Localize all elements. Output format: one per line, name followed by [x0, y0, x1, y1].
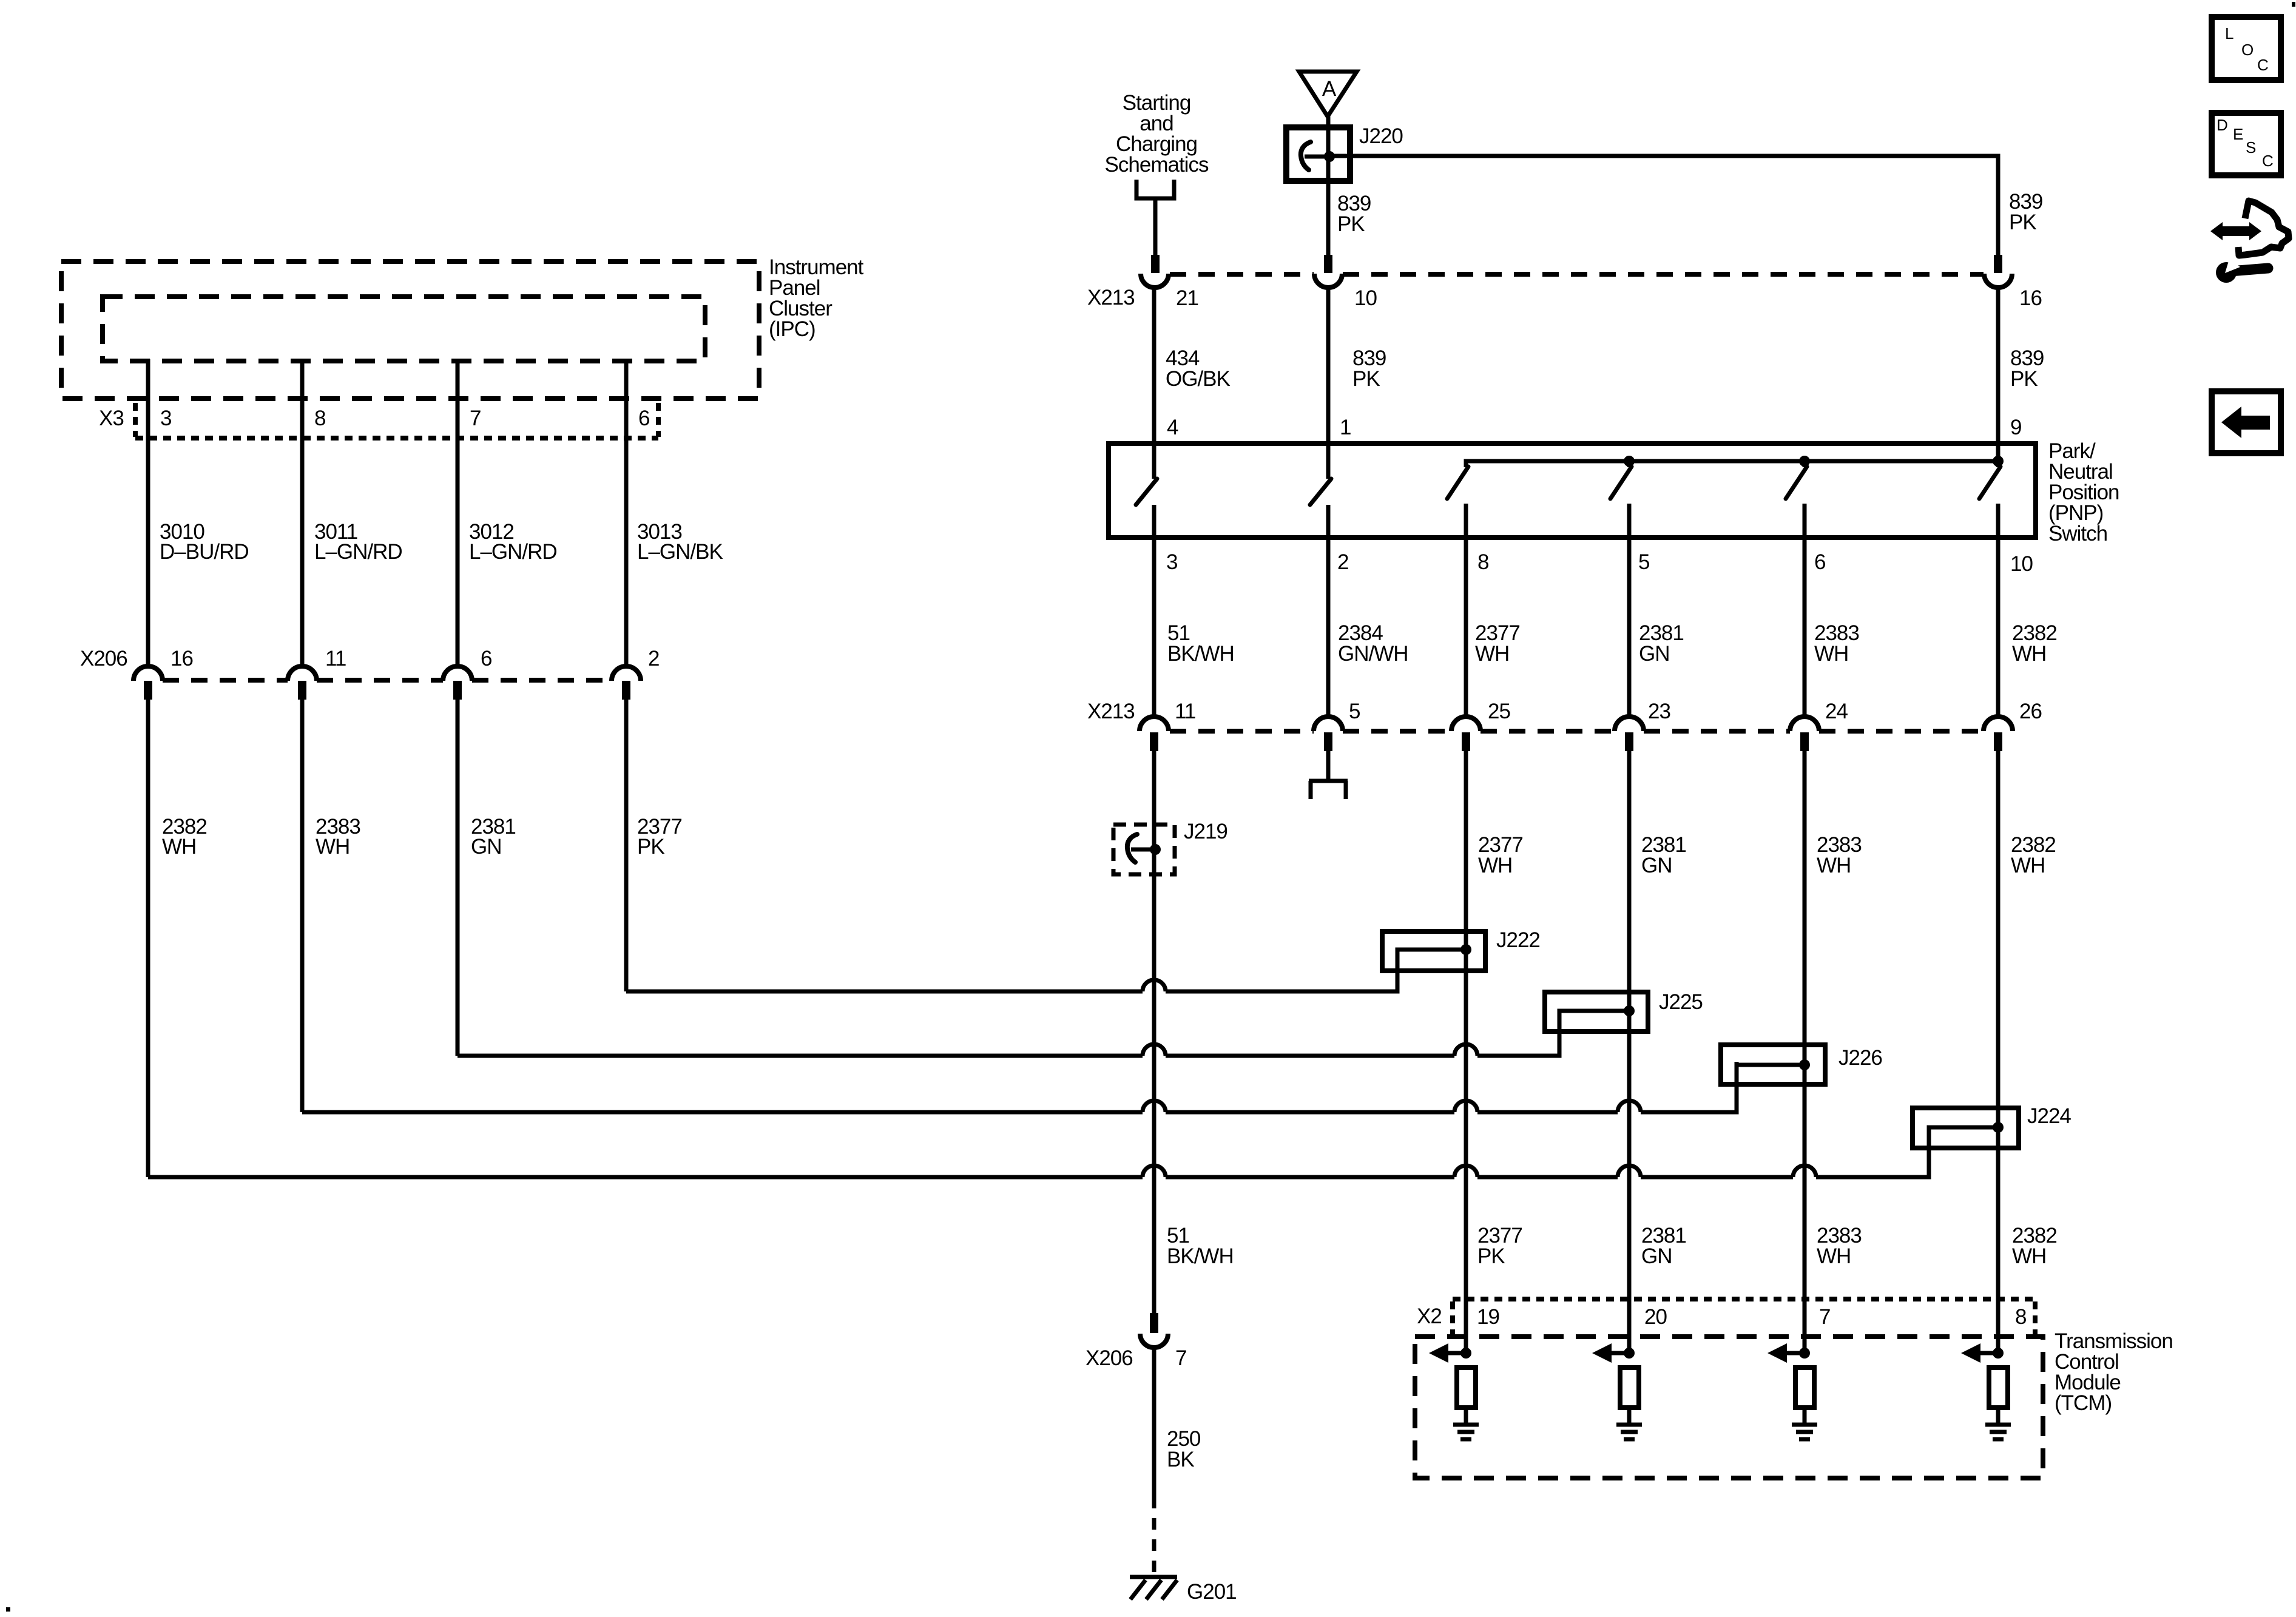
connector X2 right tick	[2033, 1301, 2038, 1334]
svg-text:O: O	[2241, 41, 2254, 59]
wire label 2384 GN/WH	[1338, 621, 1408, 666]
DESC icon box	[2212, 113, 2281, 175]
wire label 2381 GN lower	[1641, 1224, 1686, 1268]
switch 1 lower contact wire to pin 3	[1152, 505, 1156, 717]
TCM junction pin 7	[1799, 1348, 1810, 1359]
svg-text:E: E	[2233, 125, 2243, 143]
label Transmission Control Module (TCM)	[2055, 1329, 2173, 1415]
wire 2382 WH from X213-26 down to TCM pin 8	[1996, 751, 2001, 1353]
wire 2383 WH down from X206-11 to bus3 elbow	[300, 700, 305, 1112]
splice J224 junction	[1993, 1122, 2004, 1133]
label Park/Neutral Position (PNP) Switch	[2048, 439, 2119, 545]
service icon wrench	[2216, 259, 2268, 283]
wire label 2383 WH lower	[1817, 1224, 1862, 1268]
node A triangle	[1299, 72, 1357, 116]
svg-text:X2: X2	[1417, 1305, 1442, 1328]
label Instrument Panel Cluster (IPC)	[769, 255, 864, 341]
svg-text:X213: X213	[1087, 286, 1135, 309]
wire 2384 stub below X213-5	[1326, 751, 1331, 781]
svg-text:L: L	[2225, 24, 2234, 42]
wire label 2381 GN mid	[1641, 833, 1686, 877]
bus3 segment	[1477, 1110, 1618, 1115]
splice J222 junction	[1460, 944, 1471, 955]
bus2 hop over wire 51	[1143, 1044, 1166, 1056]
svg-text:2: 2	[1337, 550, 1348, 574]
splice J219 dashed box	[1113, 825, 1175, 874]
svg-text:PK: PK	[1337, 212, 1365, 236]
splice J226 box	[1721, 1045, 1825, 1084]
connector X213 pin 24 arc	[1790, 717, 1819, 731]
wire label 839 PK right top	[2009, 190, 2042, 234]
IPC inner dashed box	[103, 297, 705, 361]
connector X213 pin 23 arc	[1615, 717, 1644, 731]
svg-text:16: 16	[2019, 286, 2042, 310]
svg-text:3: 3	[160, 407, 171, 430]
svg-text:WH: WH	[1478, 854, 1512, 877]
bus4 segment	[1641, 1175, 1793, 1180]
wire 2383 WH from X213-24 down to TCM pin 7	[1803, 751, 1807, 1353]
wire label 2377 WH mid	[1478, 833, 1523, 877]
wire resistor R4 to ground	[1996, 1408, 2001, 1423]
svg-text:WH: WH	[316, 835, 349, 859]
svg-text:6: 6	[481, 647, 491, 670]
connector X3 left tick	[133, 403, 138, 437]
svg-text:7: 7	[1175, 1346, 1186, 1370]
svg-text:X213: X213	[1087, 700, 1135, 723]
svg-text:BK/WH: BK/WH	[1167, 642, 1234, 666]
splice J226 junction	[1799, 1059, 1810, 1070]
connector X206 pin 16 terminal	[144, 681, 152, 700]
bus3 hop over wire 2381	[1618, 1101, 1641, 1112]
svg-text:L–GN/RD: L–GN/RD	[469, 540, 557, 564]
ground (TCM pin 19)	[1453, 1425, 1479, 1439]
wire label 2377 PK lower	[1477, 1224, 1522, 1268]
connector X213 pin 26 arc	[1984, 717, 2013, 731]
wire label 2383 WH left	[316, 815, 360, 859]
connector X213 pin 25 arc	[1451, 717, 1481, 731]
splice J224 inner link	[1929, 1127, 1998, 1148]
bus2 wire 2381 from IPC column to J225	[458, 1054, 1143, 1058]
switch 6 top stub	[1996, 461, 2001, 467]
wire resistor R1 to ground	[1464, 1408, 1468, 1423]
connector X213 pin 26 terminal	[1994, 732, 2002, 751]
svg-text:GN: GN	[1641, 854, 1672, 877]
wire label 2381 GN left	[471, 815, 516, 859]
connector X3 right tick	[656, 403, 661, 437]
wire label 250 BK	[1167, 1427, 1201, 1471]
splice J220 crimp link	[1305, 155, 1328, 159]
TCM junction pin 19	[1460, 1348, 1471, 1359]
svg-text:J220: J220	[1359, 124, 1403, 148]
service icon component outline	[2238, 201, 2289, 255]
svg-text:7: 7	[470, 407, 481, 430]
bus1 hop over wire 51	[1143, 980, 1166, 991]
svg-text:6: 6	[638, 407, 649, 430]
bus2 segment	[1166, 1054, 1454, 1058]
svg-text:PK: PK	[2009, 211, 2036, 234]
wire 250 BK solid segment	[1152, 1348, 1156, 1497]
connector X213 pin 16 arc	[1984, 274, 2012, 288]
svg-text:GN: GN	[471, 835, 502, 859]
connector X2 dotted line	[1453, 1297, 2035, 1301]
svg-text:PK: PK	[1477, 1244, 1505, 1268]
wire resistor R3 to ground	[1803, 1408, 1807, 1423]
wire resistor R2 to ground	[1627, 1408, 1632, 1423]
svg-text:J222: J222	[1496, 928, 1540, 952]
bus1 wire continues to J222 riser	[1166, 948, 1397, 991]
svg-text:16: 16	[171, 647, 193, 670]
svg-text:Switch: Switch	[2048, 522, 2107, 545]
bus3 segment	[1166, 1110, 1454, 1115]
svg-text:OG/BK: OG/BK	[1166, 367, 1231, 391]
bus3 wire 2383 from IPC column to J226	[302, 1110, 1143, 1115]
svg-text:8: 8	[1477, 550, 1488, 574]
service icon double arrow	[2210, 222, 2261, 240]
bus2 hop over wire 2377	[1454, 1044, 1477, 1056]
wire from bracket to X213 pin 21	[1153, 198, 1158, 255]
splice J219 crimp symbol	[1127, 834, 1137, 862]
wire 2381 GN from X213-23 down to TCM pin 20	[1627, 751, 1632, 1353]
switch 4 blade	[1610, 467, 1632, 499]
svg-text:X3: X3	[99, 407, 124, 430]
wire label 434 OG/BK	[1166, 346, 1231, 391]
svg-text:24: 24	[1825, 700, 1848, 723]
svg-text:11: 11	[1175, 700, 1195, 723]
PNP bus junction at pin 9	[1993, 456, 2004, 467]
splice J222 inner link	[1397, 950, 1466, 971]
back arrow icon box	[2212, 391, 2281, 453]
bus4 segment	[1166, 1175, 1454, 1180]
svg-text:20: 20	[1644, 1305, 1667, 1329]
switch 3 blade	[1447, 467, 1468, 499]
svg-text:6: 6	[1814, 550, 1825, 574]
connector X213 pin 16 terminal	[1994, 255, 2002, 273]
svg-text:WH: WH	[2011, 854, 2045, 877]
svg-text:19: 19	[1477, 1305, 1499, 1329]
svg-text:1: 1	[1340, 416, 1351, 439]
bus4 segment	[1477, 1175, 1618, 1180]
svg-text:(TCM): (TCM)	[2055, 1391, 2112, 1415]
bus3 hop over wire 51	[1143, 1101, 1166, 1112]
wire label 2377 WH upper	[1475, 621, 1520, 666]
bus3 wire continues to J226 riser	[1641, 1062, 1737, 1112]
svg-text:J225: J225	[1659, 990, 1703, 1014]
switch 3 lower contact wire to pin 8	[1464, 504, 1468, 717]
TCM dashed box	[1415, 1337, 2043, 1478]
switch 5 top stub	[1803, 461, 1807, 467]
splice J225 junction	[1624, 1005, 1635, 1016]
splice J220 junction	[1324, 151, 1335, 162]
connector X213 pin 25 terminal	[1462, 732, 1470, 751]
splice J222 box	[1382, 931, 1485, 971]
connector X213 row2 dashed line	[1170, 729, 1984, 734]
connector X206 pin 7 arc	[1140, 1334, 1168, 1348]
svg-text:L–GN/RD: L–GN/RD	[314, 540, 402, 564]
wire label 2383 WH mid	[1817, 833, 1862, 877]
wire label 2382 WH mid	[2011, 833, 2056, 877]
TCM input arrow pin 8	[1961, 1343, 1998, 1363]
svg-text:BK/WH: BK/WH	[1167, 1244, 1234, 1268]
svg-text:BK: BK	[1167, 1448, 1194, 1471]
splice J220 crimp symbol	[1301, 142, 1311, 170]
TCM input arrow pin 20	[1592, 1343, 1629, 1363]
svg-text:PK: PK	[637, 835, 664, 859]
switch 5 lower contact wire to pin 6	[1803, 504, 1807, 717]
svg-text:10: 10	[1354, 286, 1377, 310]
switch 2 blade	[1310, 479, 1331, 505]
splice J219 junction	[1150, 844, 1161, 855]
svg-text:GN: GN	[1641, 1244, 1672, 1268]
svg-text:PK: PK	[2010, 367, 2038, 391]
ground (TCM pin 7)	[1792, 1425, 1817, 1439]
wire label 839 PK center	[1352, 346, 1386, 391]
svg-text:4: 4	[1167, 416, 1178, 439]
svg-text:5: 5	[1349, 700, 1360, 723]
wire label 2381 GN upper	[1639, 621, 1684, 666]
resistor R3 (TCM pin 7 pulldown)	[1795, 1368, 1814, 1408]
switch 6 lower contact wire to pin 10	[1996, 504, 2001, 717]
svg-text:G201: G201	[1187, 1580, 1237, 1604]
wire label 2382 WH lower	[2012, 1224, 2057, 1268]
TCM input arrow pin 19	[1429, 1343, 1466, 1363]
connector X206 dashed line	[163, 678, 612, 683]
LOC icon letters	[2225, 24, 2269, 74]
corner mark top right	[2292, 2, 2295, 7]
switch 2 lower contact wire to pin 2	[1326, 505, 1331, 717]
label Starting and Charging Schematics	[1105, 91, 1209, 177]
wire label 3012 L-GN/RD	[469, 520, 557, 564]
splice J219 crimp link	[1131, 848, 1154, 852]
wire 2377 WH from X213-25 down to TCM pin 19	[1464, 751, 1468, 1353]
ground G201 symbol	[1130, 1577, 1177, 1599]
corner mark bottom left	[6, 1607, 10, 1612]
svg-text:WH: WH	[1817, 854, 1851, 877]
connector X206 pin 2 terminal	[622, 681, 630, 700]
connector X213 row1 dashed line	[1170, 272, 1984, 277]
bus4 wire 2382 from IPC column to J224	[148, 1175, 1143, 1180]
splice J225 box	[1545, 992, 1648, 1031]
svg-text:X206: X206	[80, 647, 127, 670]
switch 4 top stub	[1627, 461, 1632, 467]
bus2 wire continues to J225 riser	[1477, 1009, 1559, 1056]
wire 250 BK dashed segment	[1152, 1497, 1156, 1577]
PNP internal bus wire	[1466, 461, 1998, 467]
svg-text:D–BU/RD: D–BU/RD	[160, 540, 249, 564]
connector X213 pin 5 terminal	[1324, 732, 1332, 751]
wire 839 PK from J220 to right column	[1329, 156, 1998, 255]
bus4 hop over wire 51	[1143, 1166, 1166, 1177]
svg-text:D: D	[2217, 116, 2228, 134]
svg-text:A: A	[1322, 77, 1337, 101]
splice J226 inner link	[1737, 1065, 1805, 1084]
svg-text:8: 8	[2015, 1305, 2026, 1329]
svg-text:WH: WH	[162, 835, 196, 859]
wire from node A through J220	[1326, 116, 1331, 255]
back arrow icon	[2221, 407, 2270, 438]
svg-text:GN: GN	[1639, 642, 1670, 666]
svg-text:7: 7	[1819, 1305, 1830, 1329]
connector X206 pin 6 arc	[443, 666, 472, 681]
svg-text:WH: WH	[1814, 642, 1848, 666]
switch 5 blade	[1786, 467, 1807, 499]
svg-text:3: 3	[1166, 550, 1177, 574]
connector X213 pin 11 arc	[1140, 717, 1169, 731]
resistor R4 (TCM pin 8 pulldown)	[1989, 1368, 2008, 1408]
wire label 51 BK/WH upper	[1167, 621, 1234, 666]
open connection fork symbol	[1309, 781, 1348, 799]
wire IPC pin7 down to X206 pin6	[456, 359, 460, 667]
splice J225 inner link	[1559, 1011, 1629, 1031]
connector X3 bottom dotted line	[135, 436, 658, 441]
connector X206 pin 2 arc	[612, 666, 641, 681]
svg-text:(IPC): (IPC)	[769, 317, 815, 341]
svg-text:PK: PK	[1352, 367, 1380, 391]
wire label 3011 L-GN/RD	[314, 520, 402, 564]
svg-text:S: S	[2246, 138, 2256, 157]
svg-text:21: 21	[1176, 286, 1198, 310]
TCM junction pin 8	[1993, 1348, 2004, 1359]
TCM junction pin 20	[1624, 1348, 1635, 1359]
wire IPC pin8 down to X206 pin11	[300, 359, 305, 667]
ground (TCM pin 8)	[1985, 1425, 2011, 1439]
svg-text:C: C	[2257, 56, 2269, 74]
ground (TCM pin 20)	[1616, 1425, 1642, 1439]
PNP bus junction at switch 5	[1799, 456, 1810, 467]
svg-text:2: 2	[648, 647, 659, 670]
wire label 2382 WH upper	[2012, 621, 2057, 666]
svg-text:8: 8	[314, 407, 325, 430]
connector X213 pin 10 terminal	[1324, 255, 1332, 273]
LOC icon box	[2212, 17, 2281, 80]
wire label 2377 PK left	[637, 815, 682, 859]
connector X206 pin 11 arc	[288, 666, 317, 681]
svg-text:GN/WH: GN/WH	[1338, 642, 1408, 666]
bus1 wire 2377 from IPC column to J222	[626, 990, 1143, 994]
connector X206 pin 16 arc	[133, 666, 163, 681]
connector X206 pin 6 terminal	[453, 681, 462, 700]
wire label 839 PK below J220	[1337, 192, 1371, 236]
resistor R2 (TCM pin 20 pulldown)	[1620, 1368, 1639, 1408]
wire label 839 PK right	[2010, 346, 2044, 391]
svg-text:C: C	[2262, 152, 2274, 170]
connector X213 pin 10 arc	[1314, 274, 1342, 288]
connector X213 pin 23 terminal	[1625, 732, 1633, 751]
svg-text:26: 26	[2019, 700, 2042, 723]
PNP bus junction at switch 4	[1624, 456, 1635, 467]
splice J224 box	[1913, 1108, 2019, 1148]
svg-text:X206: X206	[1086, 1346, 1133, 1370]
connector X2 left tick	[1450, 1301, 1455, 1334]
connector X213 pin 24 terminal	[1800, 732, 1809, 751]
bus4 hop over wire 2381	[1618, 1166, 1641, 1177]
switch 1 blade	[1136, 479, 1157, 505]
bus4 wire continues to J224 riser	[1816, 1126, 1929, 1177]
connector X206 pin 11 terminal	[298, 681, 306, 700]
svg-text:10: 10	[2010, 552, 2033, 576]
bus3 hop over wire 2377	[1454, 1101, 1477, 1112]
svg-text:J226: J226	[1838, 1046, 1882, 1070]
wire label 2382 WH left	[162, 815, 207, 859]
svg-text:WH: WH	[1475, 642, 1509, 666]
svg-text:J224: J224	[2027, 1104, 2071, 1128]
svg-text:23: 23	[1648, 700, 1670, 723]
svg-text:WH: WH	[2012, 1244, 2046, 1268]
connector X213 pin 21 arc	[1141, 274, 1169, 288]
wire 2381 GN down from X206-6 to bus2 elbow	[456, 700, 460, 1056]
wire 51 BK/WH from X213-11 down to X206 pin 7	[1152, 751, 1156, 1313]
wire 839 PK from X213-10 to PNP pin 1	[1326, 287, 1331, 479]
resistor R1 (TCM pin 19 pulldown)	[1457, 1368, 1476, 1408]
switch 4 lower contact wire to pin 5	[1627, 504, 1632, 717]
off-page bracket	[1136, 180, 1174, 198]
svg-text:WH: WH	[1817, 1244, 1851, 1268]
TCM input arrow pin 7	[1768, 1343, 1805, 1363]
svg-text:11: 11	[325, 647, 346, 670]
svg-text:J219: J219	[1184, 820, 1227, 843]
svg-text:9: 9	[2010, 416, 2021, 439]
svg-text:25: 25	[1488, 700, 1510, 723]
wire label 51 BK/WH lower	[1167, 1224, 1234, 1268]
DESC icon letters	[2217, 116, 2274, 170]
bus4 hop over wire 2377	[1454, 1166, 1477, 1177]
wire 2382 WH down from X206-16 to bus4 elbow	[146, 700, 150, 1177]
splice J220 box	[1286, 127, 1350, 181]
wire label 2383 WH upper	[1814, 621, 1859, 666]
wire 2377 PK down from X206-2 to bus1 elbow	[624, 700, 629, 991]
svg-text:Schematics: Schematics	[1105, 153, 1209, 177]
svg-text:L–GN/BK: L–GN/BK	[637, 540, 723, 564]
IPC outer dashed box	[61, 262, 759, 399]
wire 839 PK from X213-16 to PNP pin 9	[1996, 287, 2001, 461]
svg-text:5: 5	[1638, 550, 1649, 574]
wire IPC pin3 down to X206 pin16	[146, 359, 150, 667]
connector X213 pin 21 terminal	[1151, 255, 1160, 273]
wire 434 OG/BK from X213-21 to PNP pin 4	[1152, 287, 1156, 479]
wire label 3013 L-GN/BK	[637, 520, 723, 564]
wire label 3010 D-BU/RD	[160, 520, 249, 564]
connector X206 pin 7 terminal	[1150, 1313, 1158, 1333]
PNP switch box	[1109, 444, 2036, 538]
bus4 hop over wire 2383	[1793, 1166, 1816, 1177]
connector X213 pin 5 arc	[1314, 717, 1343, 731]
svg-text:WH: WH	[2012, 642, 2046, 666]
wire IPC pin6 down to X206 pin2	[624, 359, 629, 667]
connector X213 pin 11 terminal	[1150, 732, 1158, 751]
switch 6 blade	[1979, 467, 2001, 499]
